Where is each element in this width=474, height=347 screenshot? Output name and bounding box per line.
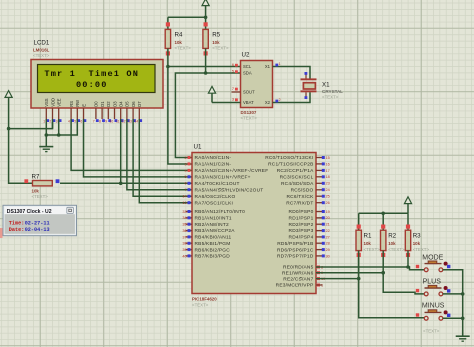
svg-text:RC4/SDI/SDA: RC4/SDI/SDA [281, 181, 314, 187]
wire U2 X1 to crystal [273, 67, 311, 79]
svg-text:4: 4 [184, 169, 186, 173]
svg-text:DS1307 Clock - U2: DS1307 Clock - U2 [7, 209, 52, 215]
svg-text:3: 3 [56, 119, 58, 123]
wire MODE to right rail [443, 270, 463, 294]
LCD1 label [34, 40, 50, 47]
push button MODE [424, 261, 447, 272]
ground bottom right [456, 330, 470, 341]
svg-text:10k: 10k [364, 241, 372, 246]
R3 label [413, 233, 421, 240]
svg-text:D3: D3 [112, 101, 117, 107]
wire R3 top [407, 213, 409, 230]
svg-text:<TEXT>: <TEXT> [423, 328, 440, 333]
R3 value 10k [413, 241, 421, 246]
U1 right pin names RE [276, 265, 314, 289]
svg-text:RD7/PSP7/P1D: RD7/PSP7/P1D [277, 254, 314, 260]
svg-text:D6: D6 [131, 101, 136, 107]
MINUS no-connect mark [447, 314, 450, 317]
svg-text:RE1/WR/AN6: RE1/WR/AN6 [282, 270, 314, 276]
svg-text:RA6/OSC2/CLKO: RA6/OSC2/CLKO [195, 194, 236, 200]
R5 label [212, 31, 220, 38]
wire +5V to VDD [9, 122, 53, 129]
ground under LCD [39, 135, 53, 152]
wire R5 top [205, 17, 207, 29]
wire VDD down [52, 119, 54, 129]
popup title [7, 209, 52, 215]
resistor R5 [203, 29, 208, 48]
wire R1 top [358, 213, 360, 230]
wire R2 top [382, 213, 384, 230]
U1 left pin stubs RB [186, 212, 193, 256]
PLUS wire end mark [416, 289, 419, 292]
U2 pin 1 number [275, 62, 280, 66]
wire RE0 to MODE [316, 267, 424, 270]
svg-text:10k: 10k [413, 241, 421, 246]
wire VSS to gnd [45, 119, 47, 135]
X1 value CRYSTAL [322, 89, 343, 94]
svg-text:2: 2 [49, 119, 51, 123]
wire D6 to RA6 [133, 119, 192, 196]
svg-text:7: 7 [184, 188, 186, 192]
svg-text:Date:: Date: [9, 227, 25, 233]
svg-text:13: 13 [128, 119, 132, 123]
popup date line [9, 227, 50, 233]
svg-text:30: 30 [326, 254, 330, 258]
wire D5 to RA5 [127, 119, 192, 190]
svg-text:7: 7 [232, 87, 234, 91]
wire D4 down [120, 119, 122, 183]
wire SCL net [168, 67, 241, 165]
svg-text:RA1/AN1/C2IN-: RA1/AN1/C2IN- [195, 162, 232, 168]
svg-text:6: 6 [232, 63, 234, 67]
svg-text:RA0/AN0/C1IN-: RA0/AN0/C1IN- [195, 155, 232, 161]
PLUS no-connect mark [447, 289, 450, 292]
svg-text:PIC18F4620: PIC18F4620 [192, 296, 217, 301]
svg-text:LM016L: LM016L [33, 48, 50, 53]
svg-text:10k: 10k [388, 241, 396, 246]
push button PLUS [424, 285, 447, 295]
svg-text:RB2/AN8/INT2: RB2/AN8/INT2 [195, 222, 229, 228]
U2 label [242, 52, 250, 59]
svg-text:15: 15 [326, 156, 330, 160]
svg-text:7: 7 [93, 119, 95, 123]
svg-text:RB7/KBI3/PGD: RB7/KBI3/PGD [195, 254, 231, 260]
svg-text:27: 27 [326, 235, 330, 239]
popup time line [9, 221, 50, 227]
wire VBAT [212, 102, 241, 104]
wire top rail [168, 16, 206, 18]
svg-text:14: 14 [182, 195, 186, 199]
svg-text:22: 22 [326, 229, 330, 233]
svg-text:U1: U1 [194, 143, 202, 150]
U1 left pin numbers RA and marks [182, 156, 190, 205]
svg-text:<TEXT>: <TEXT> [175, 45, 192, 50]
wire VEE to gnd [58, 119, 60, 135]
svg-text:RA2/AN2/C2IN+/VREF-/CVREF: RA2/AN2/C2IN+/VREF-/CVREF [195, 168, 269, 174]
junction SCL R4 [166, 65, 170, 69]
svg-text:SOUT: SOUT [243, 90, 255, 95]
svg-text:VSS: VSS [44, 98, 49, 107]
svg-text:10k: 10k [175, 40, 183, 45]
svg-text:R2: R2 [388, 233, 396, 240]
junction D4 R7 net [119, 182, 123, 186]
U2 pin names [243, 64, 271, 105]
svg-text:36: 36 [182, 229, 186, 233]
LCD1 value LM016L [33, 48, 50, 53]
svg-text:R3: R3 [413, 233, 421, 240]
svg-text:2: 2 [279, 98, 281, 102]
svg-text:RC6/TX/CK: RC6/TX/CK [286, 194, 314, 200]
svg-text:E: E [81, 104, 86, 107]
svg-text:RE0/RD/AN5: RE0/RD/AN5 [283, 265, 314, 271]
U2 value DS1307 [241, 110, 257, 115]
R4 bottom terminal mark [166, 51, 170, 55]
svg-text:RC5/SDO: RC5/SDO [291, 187, 314, 193]
wire D7 to RA7 [139, 119, 192, 203]
wire RE2 to R1 [316, 278, 359, 280]
svg-text:5: 5 [184, 175, 186, 179]
svg-text:<TEXT>: <TEXT> [413, 247, 430, 252]
svg-text:<TEXT>: <TEXT> [212, 45, 229, 50]
R4 label [175, 31, 183, 38]
svg-text:RB0/AN12/FLT0/INT0: RB0/AN12/FLT0/INT0 [195, 209, 246, 215]
svg-text:CRYSTAL: CRYSTAL [322, 89, 343, 94]
svg-text:2: 2 [184, 156, 186, 160]
U2 text property [241, 116, 258, 121]
R5 text property [212, 45, 229, 50]
R1 top terminal mark [357, 225, 361, 229]
junction VSS gnd [45, 133, 49, 137]
svg-text:RA7/OSC1/CLKI: RA7/OSC1/CLKI [195, 200, 234, 206]
svg-text:LCD1: LCD1 [34, 40, 50, 47]
junction R2 RE1 [381, 271, 385, 275]
svg-text:VDD: VDD [50, 98, 55, 107]
junction R3 MODE [406, 265, 410, 269]
svg-text:RB1/AN10/INT1: RB1/AN10/INT1 [195, 216, 232, 222]
svg-text:35: 35 [182, 223, 186, 227]
U1 right pin numbers RD and marks [322, 210, 330, 258]
svg-text:RC7/RX/DT: RC7/RX/DT [286, 200, 313, 206]
svg-text:33: 33 [182, 210, 186, 214]
wire R1 bottom to MINUS [359, 251, 425, 318]
wire rail to ground [462, 294, 464, 336]
svg-text:SCL: SCL [243, 64, 252, 69]
svg-text:D7: D7 [137, 101, 142, 107]
svg-text:1: 1 [43, 119, 45, 123]
junction PLUS rail [461, 292, 465, 296]
svg-text:<TEXT>: <TEXT> [192, 302, 209, 307]
junction R1 RE2 [357, 277, 361, 281]
svg-text:02-04-13: 02-04-13 [25, 227, 50, 233]
R2 top terminal mark [381, 225, 385, 229]
R7 left terminal mark [24, 179, 28, 183]
svg-text:RE2/CS/AN7: RE2/CS/AN7 [283, 276, 313, 282]
R2 label [388, 233, 396, 240]
LCD pin name labels [44, 98, 142, 107]
R1 value 10k [364, 241, 372, 246]
svg-text:26: 26 [326, 201, 330, 205]
svg-text:RW: RW [75, 100, 80, 107]
svg-text:20: 20 [326, 216, 330, 220]
LCD pin numbers and end marks [43, 119, 142, 123]
svg-text:RC3/SCK/SCL: RC3/SCK/SCL [280, 175, 314, 181]
svg-text:D5: D5 [125, 101, 130, 107]
svg-text:23: 23 [326, 182, 330, 186]
wire R2 bottom to PLUS [383, 251, 424, 294]
svg-text:D2: D2 [106, 101, 111, 107]
svg-text:6: 6 [80, 119, 82, 123]
svg-text:VBAT: VBAT [243, 100, 254, 105]
MINUS wire end mark [416, 313, 419, 316]
wire right rail [359, 212, 408, 214]
R2 bottom terminal mark [381, 253, 385, 257]
svg-text:25: 25 [326, 195, 330, 199]
svg-text:5: 5 [74, 119, 76, 123]
svg-text:19: 19 [326, 210, 330, 214]
svg-text:<TEXT>: <TEXT> [322, 95, 339, 100]
svg-text:3: 3 [232, 98, 234, 102]
power +5V arrow right [404, 197, 411, 214]
resistor R7 label [32, 173, 40, 180]
wire SDA net [175, 73, 240, 158]
svg-text:U2: U2 [242, 52, 250, 59]
svg-text:RA5/AN4/SS/HLVDIN/C2OUT: RA5/AN4/SS/HLVDIN/C2OUT [195, 187, 264, 193]
wire E to RA3 [84, 119, 193, 177]
power +5V arrow top [202, 0, 209, 17]
crystal X1 [301, 78, 317, 92]
U1 right pin names RC [265, 155, 314, 206]
PIC18F4620 U1 body [192, 153, 316, 294]
junction left rail [7, 127, 11, 131]
svg-text:RD2/PSP2: RD2/PSP2 [289, 222, 314, 228]
wire R3 bottom [407, 251, 409, 267]
R4 value 10k [175, 40, 183, 45]
svg-text:<TEXT>: <TEXT> [33, 53, 50, 58]
svg-text:R7: R7 [32, 173, 40, 180]
U2 pin 6 number [232, 63, 238, 67]
svg-text:1: 1 [279, 62, 281, 66]
svg-text:RD1/PSP1: RD1/PSP1 [289, 216, 314, 222]
R4 text property [175, 45, 192, 50]
wire MINUS to right rail [443, 317, 463, 319]
junction SDA R5 [204, 71, 208, 75]
U1 RE3 stub [316, 284, 323, 286]
U2 pin 2 number [275, 98, 280, 102]
wire +5V rail down to R7 [9, 129, 32, 184]
svg-text:RD6/PSP6/P1C: RD6/PSP6/P1C [277, 247, 314, 253]
R5 value 10k [212, 40, 220, 45]
svg-text:8: 8 [99, 119, 101, 123]
svg-text:SDA: SDA [243, 71, 252, 76]
svg-text:28: 28 [326, 242, 330, 246]
junction MINUS rail [461, 317, 465, 321]
svg-text:R5: R5 [212, 31, 220, 38]
LCD1 text property [33, 53, 50, 58]
X1 text property [322, 95, 339, 100]
svg-text:RS: RS [69, 101, 74, 107]
svg-text:10k: 10k [32, 188, 40, 193]
X1 label [322, 82, 330, 89]
R4 top terminal mark [166, 22, 170, 26]
svg-text:X2: X2 [265, 100, 271, 105]
svg-text:RB6/KBI2/PGC: RB6/KBI2/PGC [195, 247, 231, 253]
junction right rail R2 [381, 212, 385, 216]
U1 left pin numbers RB and marks [182, 210, 190, 258]
U1 value PIC18F4620 [192, 296, 217, 301]
R3 top terminal mark [406, 225, 410, 229]
svg-text:40: 40 [182, 254, 186, 258]
svg-text:14: 14 [134, 119, 138, 123]
svg-text:PLUS: PLUS [423, 278, 442, 285]
svg-text:10: 10 [110, 119, 114, 123]
R2 text property [388, 247, 405, 252]
power +5V arrow left [5, 91, 12, 129]
crystal X1 top stub mark [305, 72, 308, 79]
LCD pin stubs [46, 108, 139, 119]
svg-text:34: 34 [182, 216, 186, 220]
svg-text:DS1307: DS1307 [241, 110, 257, 115]
svg-text:D4: D4 [119, 101, 124, 107]
R7 value 10k [32, 188, 40, 193]
svg-text:Time:: Time: [9, 221, 25, 227]
svg-text:39: 39 [182, 248, 186, 252]
U2 pin 3 number [232, 98, 238, 102]
svg-text:RD4/PSP4: RD4/PSP4 [289, 235, 314, 241]
U1 left pin names RA [195, 155, 269, 206]
red mark behind popup [0, 228, 3, 238]
svg-text:RA3/AN3/C1IN+/VREF+: RA3/AN3/C1IN+/VREF+ [195, 175, 251, 181]
wire R7 to RA4 [60, 182, 192, 184]
svg-text:<TEXT>: <TEXT> [388, 247, 405, 252]
wire RE1 to R2 [316, 272, 383, 274]
junction VEE gnd [57, 133, 61, 137]
wire RS to RA2 [71, 119, 192, 170]
svg-text:RB5/KBI1/PGM: RB5/KBI1/PGM [195, 241, 231, 247]
wire gnd bus under LCD [46, 119, 77, 135]
DS1307 U2 body [241, 61, 273, 108]
MODE wire end mark [416, 265, 419, 268]
svg-text:17: 17 [326, 169, 330, 173]
U1 right pin names RD [277, 209, 314, 259]
svg-text:02-27-11: 02-27-11 [25, 221, 50, 227]
R7 text property [32, 194, 49, 199]
svg-text:29: 29 [326, 248, 330, 252]
svg-text:3: 3 [184, 162, 186, 166]
push button MINUS [424, 310, 447, 320]
svg-text:18: 18 [326, 175, 330, 179]
R7 right terminal mark [56, 179, 60, 183]
svg-text:<TEXT>: <TEXT> [32, 194, 49, 199]
svg-text:D0: D0 [94, 101, 99, 107]
R1 bottom terminal mark [357, 253, 361, 257]
R2 value 10k [388, 241, 396, 246]
push button MINUS label [422, 303, 445, 310]
wire R4 top [167, 17, 169, 29]
svg-text:Tmr 1 Time1 ON: Tmr 1 Time1 ON [44, 69, 139, 79]
svg-text:D1: D1 [100, 101, 105, 107]
MODE no-connect mark [447, 265, 450, 268]
svg-text:RE3/MCLR/VPP: RE3/MCLR/VPP [276, 283, 314, 289]
R5 bottom terminal mark [204, 51, 208, 55]
U2 pin 7 number [232, 87, 238, 91]
svg-text:9: 9 [105, 119, 107, 123]
push button MODE label [422, 254, 443, 261]
svg-text:<TEXT>: <TEXT> [364, 247, 381, 252]
svg-text:VEE: VEE [57, 98, 62, 107]
svg-text:10k: 10k [212, 40, 220, 45]
resistor R4 [165, 29, 170, 48]
svg-text:11: 11 [116, 119, 120, 123]
U1 right pin stubs RC RD [316, 158, 323, 256]
svg-text:X1: X1 [265, 64, 271, 69]
wire U2 X2 to crystal [273, 92, 311, 102]
svg-text:RD3/PSP3: RD3/PSP3 [289, 228, 314, 234]
svg-text:RB3/AN9/CCP2A: RB3/AN9/CCP2A [195, 228, 236, 234]
svg-text:24: 24 [326, 188, 330, 192]
junction top rail [204, 15, 208, 19]
svg-text:X1: X1 [322, 82, 330, 89]
R5 top terminal mark [204, 22, 208, 26]
R1 text property [364, 247, 381, 252]
svg-text:21: 21 [326, 223, 330, 227]
svg-text:<TEXT>: <TEXT> [241, 116, 258, 121]
power arrow VBAT [208, 86, 215, 102]
wire R4 to SCL net [167, 48, 169, 66]
resistor R1 [356, 230, 361, 250]
U1 right pin numbers RC and marks [322, 156, 330, 205]
svg-text:R4: R4 [175, 31, 183, 38]
svg-text:37: 37 [182, 235, 186, 239]
svg-text:RC2/CCP1/P1A: RC2/CCP1/P1A [277, 168, 314, 174]
svg-text:6: 6 [184, 182, 186, 186]
R3 bottom terminal mark [406, 253, 410, 257]
crystal X1 bottom stub mark [305, 92, 308, 99]
LCD LM016L body [31, 60, 163, 109]
resistor R7 [33, 181, 53, 186]
svg-text:13: 13 [182, 201, 186, 205]
svg-text:RC1/T1OSI/CCP2B: RC1/T1OSI/CCP2B [268, 162, 313, 168]
svg-text:38: 38 [182, 242, 186, 246]
wire R5 to SDA net [205, 48, 207, 73]
svg-text:MODE: MODE [422, 254, 443, 261]
svg-text:RD5/PSP5/P1B: RD5/PSP5/P1B [277, 241, 313, 247]
wire PLUS to right rail [443, 293, 463, 295]
U1 right pin numbers RE and marks [317, 265, 325, 287]
svg-text:RA4/T0CKI/C1OUT: RA4/T0CKI/C1OUT [195, 181, 240, 187]
svg-text:4: 4 [68, 119, 70, 123]
R3 text property [413, 247, 430, 252]
resistor R2 [381, 230, 386, 250]
U2 SOUT pin stub [232, 91, 241, 93]
svg-text:R1: R1 [364, 233, 372, 240]
LCD screen [38, 65, 156, 93]
LCD screen line2 [76, 80, 108, 90]
svg-text:RD0/PSP0: RD0/PSP0 [289, 209, 314, 215]
svg-text:MINUS: MINUS [422, 303, 445, 310]
U1 label [194, 143, 202, 150]
svg-text:RC0/T1OSO/T13CKI: RC0/T1OSO/T13CKI [265, 155, 313, 161]
R1 label [364, 233, 372, 240]
svg-text:00:00: 00:00 [76, 80, 108, 90]
resistor R3 [405, 230, 410, 250]
U1 text property [192, 302, 209, 307]
svg-text:RB4/KBI0/AN11: RB4/KBI0/AN11 [195, 235, 232, 241]
svg-text:5: 5 [232, 70, 234, 74]
LCD screen line1 [44, 69, 139, 79]
popup button [67, 207, 74, 213]
U1 left pin names RB [195, 209, 246, 259]
buttons text property [423, 328, 440, 333]
